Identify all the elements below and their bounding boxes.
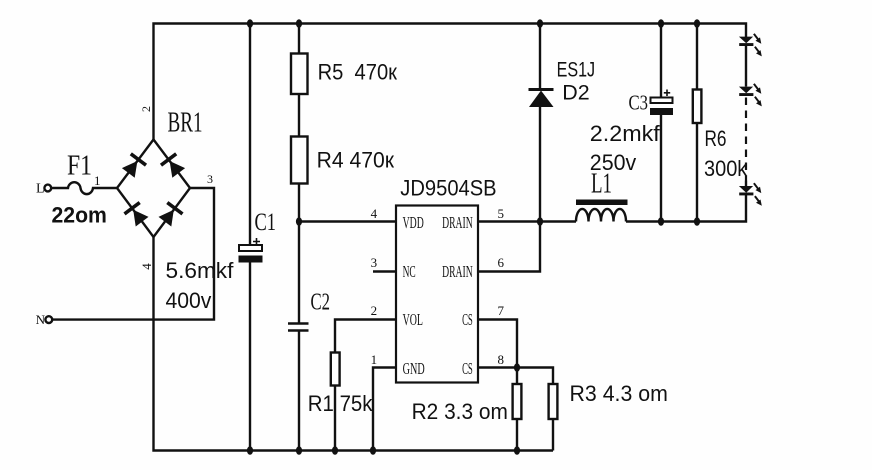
svg-text:4: 4 bbox=[371, 206, 378, 221]
svg-text:4: 4 bbox=[139, 263, 154, 270]
svg-text:3: 3 bbox=[371, 255, 378, 270]
svg-text:6: 6 bbox=[498, 255, 505, 270]
svg-text:250v: 250v bbox=[590, 150, 636, 175]
svg-text:C3: C3 bbox=[629, 91, 649, 115]
svg-text:JD9504SB: JD9504SB bbox=[400, 175, 496, 200]
svg-text:2.2mkf: 2.2mkf bbox=[590, 121, 661, 146]
svg-text:2: 2 bbox=[139, 106, 153, 112]
svg-text:7: 7 bbox=[498, 303, 505, 318]
svg-text:1: 1 bbox=[371, 352, 378, 367]
svg-text:VDD: VDD bbox=[403, 213, 424, 232]
svg-text:5.6mkf: 5.6mkf bbox=[166, 258, 235, 283]
svg-text:ES1J: ES1J bbox=[557, 59, 596, 82]
svg-text:C1: C1 bbox=[255, 209, 277, 236]
svg-text:22om: 22om bbox=[52, 202, 107, 227]
svg-text:BR1: BR1 bbox=[168, 108, 203, 139]
svg-text:2: 2 bbox=[371, 303, 378, 318]
svg-text:300k: 300k bbox=[704, 156, 748, 181]
svg-text:R2 3.3 om: R2 3.3 om bbox=[412, 399, 508, 424]
svg-text:DRAIN: DRAIN bbox=[442, 213, 473, 232]
svg-text:C2: C2 bbox=[311, 290, 331, 316]
svg-text:R4 470к: R4 470к bbox=[317, 147, 395, 172]
svg-text:N: N bbox=[36, 312, 46, 327]
svg-text:3: 3 bbox=[207, 172, 213, 186]
svg-text:CS: CS bbox=[462, 310, 473, 329]
svg-text:DRAIN: DRAIN bbox=[442, 262, 473, 281]
svg-text:5: 5 bbox=[498, 206, 505, 221]
svg-text:R6: R6 bbox=[705, 126, 727, 151]
svg-text:8: 8 bbox=[498, 352, 505, 367]
svg-text:NC: NC bbox=[403, 262, 416, 281]
svg-text:CS: CS bbox=[462, 359, 473, 378]
svg-text:F1: F1 bbox=[67, 150, 92, 182]
svg-text:R1 75k: R1 75k bbox=[308, 391, 374, 416]
svg-text:D2: D2 bbox=[562, 82, 589, 105]
svg-text:VOL: VOL bbox=[403, 310, 423, 329]
svg-text:L: L bbox=[36, 182, 45, 197]
svg-text:1: 1 bbox=[94, 173, 101, 188]
svg-text:R5 470к: R5 470к bbox=[318, 60, 398, 85]
svg-text:GND: GND bbox=[403, 359, 425, 378]
svg-text:400v: 400v bbox=[166, 288, 212, 313]
svg-text:R3 4.3 om: R3 4.3 om bbox=[570, 381, 668, 406]
